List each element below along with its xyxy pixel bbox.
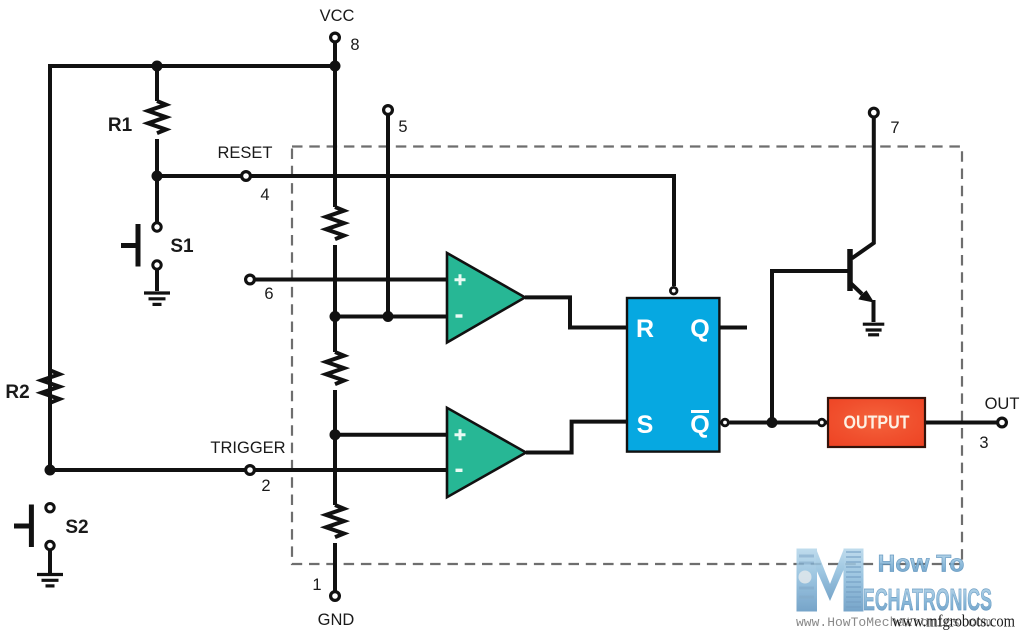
node junction top rail VCC	[330, 61, 341, 72]
resistor R2	[42, 371, 60, 403]
node junction Qbar transistor	[767, 417, 778, 428]
svg-text:Q: Q	[690, 411, 709, 439]
op-amp comparator 1 (threshold)	[447, 253, 525, 343]
flip-flop Qbar bubble	[722, 419, 729, 426]
svg-text:S: S	[637, 411, 654, 439]
svg-text:2: 2	[261, 477, 270, 495]
wire comparator1 output to R input	[525, 297, 627, 327]
bubble before OUTPUT block	[819, 419, 826, 426]
svg-text:5: 5	[398, 118, 407, 136]
wire OUTPUT block to pin 3	[925, 421, 1002, 425]
IC boundary dashed box	[292, 147, 962, 565]
pin 2 terminal	[246, 466, 255, 475]
svg-text:TRIGGER: TRIGGER	[210, 439, 285, 457]
svg-text:1: 1	[312, 576, 321, 594]
node junction top rail R1	[152, 61, 163, 72]
wire RESET line pin4 to flip-flop top	[157, 176, 674, 286]
resistor divider middle	[326, 352, 344, 384]
pin 6 terminal	[246, 275, 255, 284]
svg-text:6: 6	[264, 285, 273, 303]
svg-text:GND: GND	[318, 611, 355, 629]
svg-text:OUTPUT: OUTPUT	[844, 412, 911, 433]
svg-text:8: 8	[350, 36, 359, 54]
svg-text:How To: How To	[878, 551, 965, 578]
svg-text:R1: R1	[108, 115, 133, 136]
pin 3 terminal	[998, 418, 1007, 427]
svg-text:4: 4	[260, 186, 269, 204]
wire Q output stub	[719, 326, 747, 330]
wire divider node A to comparator1 minus	[335, 315, 449, 319]
svg-text:R2: R2	[5, 382, 29, 403]
resistor divider top	[326, 207, 344, 239]
wire comparator2 output to S input	[526, 422, 627, 453]
svg-text:OUT: OUT	[985, 395, 1020, 413]
pin 1 terminal	[331, 592, 340, 601]
node junction trigger R2	[45, 465, 56, 476]
node junction RESET R1	[152, 171, 163, 182]
wire Qbar to OUTPUT block	[730, 421, 829, 425]
switch S2	[14, 504, 54, 574]
pin 4 terminal	[242, 172, 251, 181]
flip-flop top pin bubble	[670, 287, 677, 294]
wire TRIGGER line pin2 to comparator2 minus	[50, 468, 449, 472]
ground below S1	[144, 293, 170, 304]
pin 5 terminal	[384, 106, 393, 115]
node junction divider comparator1 minus	[330, 311, 341, 322]
node junction divider comparator2 plus	[330, 429, 341, 440]
op-amp comparator 2 (trigger)	[447, 408, 526, 497]
node junction pin5 line	[383, 311, 394, 322]
pin 8 terminal	[331, 33, 340, 42]
ground below S2	[37, 575, 63, 586]
svg-text:www.mfgrobots.com: www.mfgrobots.com	[892, 612, 1015, 631]
svg-text:VCC: VCC	[320, 7, 355, 25]
wire pin 6 threshold to comparator plus	[255, 278, 449, 282]
pin 7 terminal	[869, 108, 878, 117]
wire Qbar node to transistor base	[772, 271, 848, 423]
flip-flop U1 (SR latch)	[627, 298, 719, 452]
wire divider node B to comparator2 plus	[335, 433, 449, 437]
svg-text:7: 7	[890, 119, 899, 137]
svg-text:3: 3	[979, 434, 988, 452]
svg-text:R: R	[636, 315, 654, 343]
svg-text:Q: Q	[690, 315, 709, 343]
watermark logo M	[797, 549, 864, 612]
ground below transistor	[863, 324, 885, 335]
resistor divider bottom	[326, 505, 344, 537]
resistor R1	[148, 101, 166, 133]
wire left rail	[48, 64, 52, 470]
switch S1	[121, 223, 161, 291]
transistor Q1 (discharge)	[850, 118, 874, 322]
wire VCC pin 8 vertical / divider line	[333, 40, 337, 591]
svg-text:RESET: RESET	[217, 144, 272, 162]
svg-text:S2: S2	[65, 517, 88, 538]
wire R1 branch	[155, 66, 159, 227]
svg-text:S1: S1	[170, 236, 194, 257]
OUTPUT block	[828, 398, 925, 447]
wire pin 5 control voltage vertical	[386, 115, 390, 317]
wire top VCC rail	[50, 64, 335, 68]
